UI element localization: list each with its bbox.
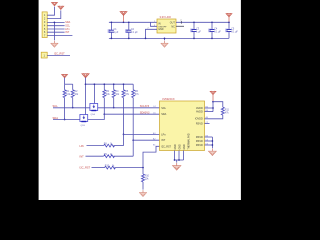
wire OUT rail <box>176 21 229 23</box>
wire Q1A gate <box>94 83 96 103</box>
wire right pullup rail <box>86 83 134 85</box>
svg-text:I2C_RST: I2C_RST <box>161 145 171 148</box>
wire SCL <box>53 107 160 109</box>
svg-text:INT: INT <box>65 31 69 34</box>
wire VIN top rail <box>109 21 157 23</box>
wire LPn riser <box>124 134 160 145</box>
node INT <box>65 31 69 34</box>
svg-text:GND: GND <box>180 144 182 149</box>
svg-text:SCL: SCL <box>53 104 59 108</box>
svg-text:SCL3V3: SCL3V3 <box>140 105 150 108</box>
resistor R3 <box>103 83 111 115</box>
svg-text:RSVD: RSVD <box>196 122 203 125</box>
ground RSVD <box>208 149 216 156</box>
wire pin2 to VIN <box>47 10 61 18</box>
ground regulator <box>161 38 169 48</box>
svg-text:SCL: SCL <box>161 107 166 110</box>
svg-text:1 µF: 1 µF <box>196 31 201 33</box>
connector J1 <box>42 12 47 38</box>
svg-text:RSVD: RSVD <box>196 144 203 147</box>
resistor R5 <box>122 83 130 135</box>
svg-text:VL53L5CX: VL53L5CX <box>162 97 175 101</box>
node LPn <box>65 28 70 31</box>
transistor Q1B <box>80 115 88 128</box>
capacitor C2 <box>125 21 138 39</box>
wire pin4 SDA <box>47 25 64 27</box>
wire SDA <box>53 114 160 119</box>
wire NC stub <box>176 20 184 27</box>
pin designators right <box>206 106 209 145</box>
svg-text:R10: R10 <box>105 165 110 167</box>
wire pin7 INT <box>47 35 72 37</box>
wire LDO GND pin <box>145 29 157 39</box>
svg-text:NC: NC <box>171 25 175 28</box>
wire pin6 LPn <box>47 31 64 33</box>
resistor R7 <box>87 143 124 147</box>
svg-text:GND: GND <box>175 144 177 149</box>
svg-text:SDA: SDA <box>53 116 59 120</box>
node I2C_RST <box>54 52 65 56</box>
svg-text:IOVDD: IOVDD <box>195 118 203 121</box>
wire J2 I2C_RST <box>47 55 70 57</box>
ground R10 <box>139 190 147 197</box>
white schematic canvas <box>39 0 241 200</box>
wire pin1 to VDD <box>47 7 54 16</box>
transistor Q1A <box>90 104 98 117</box>
wire AVDD pins <box>205 101 214 112</box>
wire INT riser <box>133 140 159 156</box>
svg-text:OUT: OUT <box>170 22 176 25</box>
svg-text:0.1 µF: 0.1 µF <box>131 32 138 34</box>
IC U2 VL53L5CX <box>160 101 205 151</box>
resistor R11 <box>205 102 230 119</box>
power symbol AVDD <box>210 91 216 102</box>
svg-text:3: 3 <box>154 25 155 27</box>
connector J2 <box>41 52 47 58</box>
svg-text:RSVD: RSVD <box>196 140 203 143</box>
svg-text:RSVD: RSVD <box>196 136 203 139</box>
node SCL3V3 <box>140 105 150 108</box>
node SCL <box>65 25 70 28</box>
svg-text:AVDD: AVDD <box>196 110 203 113</box>
ground <box>51 41 59 48</box>
power symbol VIN regulator <box>120 11 127 23</box>
svg-text:1: 1 <box>154 21 155 23</box>
pin designators left <box>153 106 156 147</box>
node SDA3V3 <box>140 111 150 114</box>
node INT label row <box>80 154 85 158</box>
svg-text:R10: R10 <box>145 176 150 178</box>
capacitor C5 <box>225 22 238 38</box>
resistor R4 <box>112 83 120 108</box>
svg-text:I2C_RST: I2C_RST <box>54 52 65 56</box>
op-amp U1 3.3V LDO <box>157 19 176 33</box>
node 3.3V LDO label <box>160 15 171 19</box>
wire ON/OFF tie <box>148 21 158 30</box>
svg-text:INT: INT <box>80 154 85 158</box>
capacitor C1 <box>108 21 119 39</box>
wire GND bottom rail <box>109 37 229 39</box>
node VL53L5CX label <box>162 97 175 101</box>
resistor R6 <box>132 84 140 141</box>
capacitor C4 <box>208 21 221 39</box>
svg-text:IN: IN <box>158 22 161 25</box>
svg-text:0.1 µF: 0.1 µF <box>231 31 238 33</box>
ground IC <box>172 163 181 170</box>
wire GND drop <box>54 22 56 41</box>
power symbol VDD shifter left <box>62 74 68 84</box>
resistor R8 <box>86 154 134 158</box>
wire I2C_RST riser <box>142 146 159 168</box>
svg-text:I2C_RST: I2C_RST <box>80 165 91 169</box>
power symbol VDD <box>52 2 58 6</box>
power symbol 3V3 <box>226 13 232 23</box>
svg-text:INT: INT <box>161 139 166 142</box>
wire pin3 GND <box>47 21 64 23</box>
svg-text:GND: GND <box>158 28 164 31</box>
resistor R1 <box>63 84 71 120</box>
resistor R9 <box>92 165 144 169</box>
power symbol VIN shifter <box>82 73 89 115</box>
svg-text:Q1B: Q1B <box>81 125 86 127</box>
wire RSVD tie <box>205 137 214 148</box>
node I2C_RST label row <box>80 165 91 169</box>
svg-text:1 µF: 1 µF <box>114 32 119 34</box>
svg-text:LPn: LPn <box>80 144 85 148</box>
wire IC GND pins <box>174 151 184 163</box>
node LPn label row <box>80 144 85 148</box>
svg-text:GND: GND <box>184 144 186 149</box>
svg-text:Q1A: Q1A <box>91 113 96 116</box>
node SDA <box>65 21 70 24</box>
wire pin5 SCL <box>47 28 64 30</box>
node SDA label <box>53 116 59 120</box>
node SCL label <box>53 104 59 108</box>
wire RSVD stub <box>205 122 210 124</box>
resistor R10 pulldown <box>142 168 150 190</box>
power symbol VIN <box>58 6 64 10</box>
svg-text:3.3V LDO: 3.3V LDO <box>160 15 171 19</box>
svg-text:LPn: LPn <box>161 133 166 136</box>
svg-text:R11: R11 <box>225 110 230 112</box>
wire left pullup rail <box>65 83 73 85</box>
svg-text:2: 2 <box>180 20 181 22</box>
svg-text:0.1 µF: 0.1 µF <box>214 31 221 33</box>
resistor R2 <box>71 84 79 108</box>
svg-text:SDA: SDA <box>161 113 166 116</box>
capacitor C3 <box>190 21 201 39</box>
svg-text:SDA3V3: SDA3V3 <box>140 111 150 114</box>
svg-text:THERMAL PAD: THERMAL PAD <box>188 133 191 149</box>
